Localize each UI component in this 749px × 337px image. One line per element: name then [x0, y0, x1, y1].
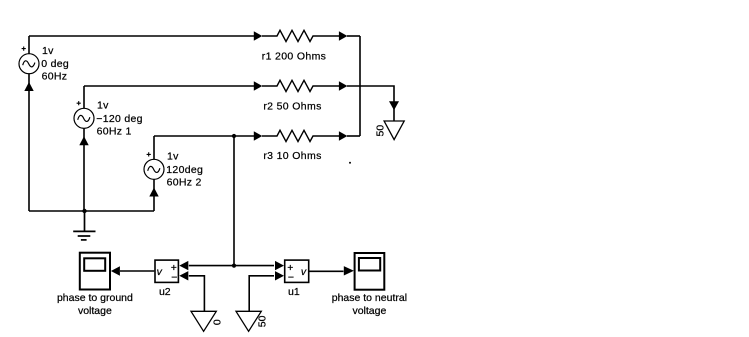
arrowhead into scope1	[111, 266, 120, 275]
scope phase-to-ground	[80, 253, 110, 290]
stray annotation dot	[349, 162, 351, 164]
node junction measurement wire	[232, 264, 236, 268]
arrowhead into r3	[254, 131, 262, 140]
svg-text:50: 50	[375, 125, 387, 137]
wire r3 out to bus	[347, 135, 360, 137]
svg-text:voltage: voltage	[352, 305, 386, 317]
arrowhead u1 plus	[275, 261, 284, 270]
wire S2 top horizontal to r2	[84, 85, 254, 87]
AC source V3 120deg	[144, 152, 164, 179]
arrowhead u1 minus	[275, 271, 284, 280]
svg-text:60Hz: 60Hz	[42, 71, 68, 83]
svg-text:60Hz 1: 60Hz 1	[97, 125, 132, 137]
wire bottom bus	[29, 210, 154, 212]
svg-text:u1: u1	[288, 286, 300, 298]
wire S2 bottom	[83, 128, 85, 211]
arrowhead u2 minus	[179, 271, 188, 280]
svg-text:r1 200 Ohms: r1 200 Ohms	[262, 51, 327, 63]
svg-text:r2 50 Ohms: r2 50 Ohms	[263, 101, 321, 113]
svg-text:−: −	[171, 271, 177, 283]
wire u2 minus to node 0	[189, 276, 205, 312]
arrowhead u2 plus	[179, 261, 188, 270]
arrowhead into r2	[254, 81, 262, 90]
node 50 triangle right	[384, 121, 404, 140]
svg-text:phase to neutral: phase to neutral	[332, 292, 407, 304]
wire S3 bottom	[153, 179, 155, 211]
arrowhead out of r1	[339, 31, 348, 40]
wire u1 out to scope2	[309, 270, 343, 272]
wire u2 plus input	[189, 265, 274, 267]
AC source V2 -120deg	[74, 101, 94, 128]
node 0 triangle	[191, 311, 216, 331]
svg-text:−120 deg: −120 deg	[96, 113, 143, 125]
wire S1 top vertical	[28, 36, 30, 54]
voltage measurement u1	[285, 260, 309, 282]
svg-text:voltage: voltage	[78, 305, 112, 317]
svg-text:1v: 1v	[97, 100, 109, 112]
svg-text:50: 50	[256, 315, 268, 327]
voltage measurement u2	[155, 260, 178, 282]
arrowhead into node 50 top	[389, 101, 399, 110]
svg-text:r3 10 Ohms: r3 10 Ohms	[263, 150, 321, 162]
arrowhead into V3	[149, 188, 158, 197]
svg-text:60Hz 2: 60Hz 2	[167, 176, 202, 188]
wire u2 out to scope1	[120, 270, 154, 272]
resistor r1	[262, 30, 339, 41]
svg-text:0 deg: 0 deg	[41, 58, 69, 70]
arrowhead out of r3	[339, 131, 348, 140]
resistor r2	[262, 80, 339, 91]
wire r1 out to bus	[347, 35, 360, 37]
ground symbol	[73, 211, 95, 240]
wire S2 top vertical	[83, 86, 85, 108]
svg-text:120deg: 120deg	[166, 164, 203, 176]
wire S1 top horizontal to r1	[29, 35, 254, 37]
node junction on r3 wire	[232, 134, 236, 138]
resistor r3	[262, 130, 339, 141]
node junction bottom bus	[82, 209, 86, 213]
svg-text:1v: 1v	[167, 151, 179, 163]
wire S3 top horizontal to r3	[154, 135, 254, 137]
node 50 triangle bottom	[236, 311, 261, 331]
arrowhead into V2	[79, 136, 88, 145]
svg-text:−: −	[288, 271, 294, 283]
wire r2 out to node 50	[347, 86, 394, 121]
arrowhead into r1	[254, 31, 262, 40]
svg-text:1v: 1v	[42, 45, 54, 57]
AC source V1 0deg	[19, 47, 39, 74]
arrowhead into V1	[24, 82, 33, 91]
svg-text:phase to ground: phase to ground	[57, 292, 133, 304]
wire tap to measurement	[233, 136, 235, 266]
svg-text:u2: u2	[159, 286, 171, 298]
wire u1 minus to node 50	[249, 276, 274, 312]
arrowhead into scope2	[344, 266, 354, 275]
wire right bus vertical	[359, 36, 361, 136]
svg-text:v: v	[157, 266, 163, 278]
arrowhead out of r2	[339, 81, 348, 90]
wire S1 bottom	[28, 74, 30, 211]
svg-text:v: v	[301, 266, 307, 278]
wire S3 top vertical	[153, 136, 155, 159]
scope phase-to-neutral	[355, 253, 385, 290]
svg-text:0: 0	[211, 319, 223, 325]
